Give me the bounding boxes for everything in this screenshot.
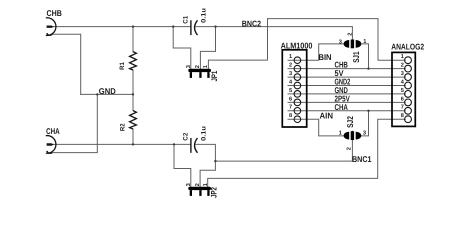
junction JP2 pin3 branch on CHA wire	[173, 143, 175, 145]
svg-text:2: 2	[195, 183, 201, 186]
svg-text:4: 4	[289, 79, 293, 85]
junction R1 top on CHB wire	[132, 25, 134, 27]
wire C1 right plate to SJ1 pin 2	[196, 27, 352, 40]
junction SJ1 pin1 on CHB rail	[367, 67, 369, 69]
svg-text:5: 5	[401, 88, 404, 94]
wire GND rail mid	[288, 93, 405, 95]
wire CHB bnc pin to C1 left plate	[51, 26, 190, 28]
svg-text:7: 7	[401, 105, 404, 111]
svg-text:2: 2	[348, 33, 354, 36]
svg-text:R1: R1	[119, 62, 126, 70]
svg-text:JP1: JP1	[210, 70, 219, 81]
svg-text:CHA: CHA	[335, 102, 348, 112]
connector CHA (BNC)	[46, 136, 56, 154]
connector ALM1000	[281, 41, 313, 128]
solder jumper SJ1	[339, 33, 367, 63]
svg-text:0.1u: 0.1u	[201, 126, 208, 141]
svg-text:1: 1	[289, 54, 292, 60]
junction SJ2 pin3 on CHA rail	[367, 110, 369, 112]
connector ANALOG2	[391, 41, 424, 126]
svg-text:C1: C1	[183, 15, 190, 23]
svg-text:CHB: CHB	[47, 8, 62, 18]
wire 2P5V rail	[288, 101, 405, 103]
wire CHA bnc pin to C2 left plate	[51, 143, 190, 145]
svg-text:SJ1: SJ1	[351, 51, 361, 63]
junction JP1 pin2 branch on C1 output wire	[214, 25, 216, 27]
wire R2 bottom branch	[132, 129, 134, 144]
svg-text:BIN: BIN	[319, 52, 332, 62]
svg-text:BNC1: BNC1	[352, 154, 372, 164]
capacitor C1	[191, 20, 198, 35]
svg-text:7: 7	[289, 105, 292, 111]
svg-text:1: 1	[401, 54, 404, 60]
wire R1 top branch	[132, 27, 134, 52]
svg-text:CHA: CHA	[46, 126, 60, 136]
svg-text:5: 5	[289, 88, 292, 94]
wire GND2 rail	[288, 85, 405, 87]
wire JP1 pin 2 feed (AC via C1)	[200, 27, 215, 69]
wire ALM pin1 BIN to SJ1 pin 3	[288, 44, 344, 60]
svg-text:6: 6	[289, 96, 292, 102]
wire CHB rail ALM pin2 to ANALOG2 pin2	[288, 68, 405, 70]
svg-text:6: 6	[401, 96, 404, 102]
junction R2 bottom on CHA wire	[132, 143, 134, 145]
wire SJ1 pin 1 to CHB rail	[361, 44, 369, 69]
wire JP1 pin 1 to BNC2 / ANALOG2 pin 1	[208, 19, 405, 69]
junction SJ2 pin2 wire on C2 output drop	[214, 160, 216, 162]
connector CHB (BNC)	[46, 18, 56, 36]
wire C2 right plate to JP2 pin 2 feed	[196, 144, 215, 186]
svg-text:3: 3	[339, 39, 342, 45]
resistor R2	[130, 111, 137, 129]
wire R1 bottom to GND rail	[132, 70, 134, 94]
junction CHA shield on GND rail	[96, 93, 98, 95]
solder jumper SJ2	[339, 116, 366, 150]
wire CHB shield to GND rail	[52, 34, 80, 94]
junction R1/R2 on GND rail	[132, 93, 134, 95]
jumper JP2	[186, 183, 219, 198]
svg-text:2: 2	[346, 147, 352, 150]
wire SJ2 pin 3 to CHA rail	[361, 111, 369, 136]
svg-text:3: 3	[186, 65, 192, 68]
svg-text:BNC2: BNC2	[242, 18, 262, 28]
wire JP2 pin 3 feed (DC)	[174, 144, 191, 186]
wire CHA rail ALM pin7 to ANALOG2 pin7	[288, 110, 405, 112]
jumper JP1	[186, 65, 219, 81]
svg-text:3: 3	[289, 71, 292, 77]
wire SJ2 pin 2 stub	[351, 131, 353, 140]
wire BNC1 net: SJ2 pin2, JP2 pin1, ANALOG2 pin8	[208, 119, 406, 187]
svg-text:1: 1	[363, 39, 366, 45]
svg-text:8: 8	[289, 113, 292, 119]
wire JP1 pin 3 feed (DC)	[173, 27, 191, 69]
svg-text:8: 8	[401, 113, 404, 119]
svg-text:R2: R2	[119, 123, 126, 131]
resistor R1	[130, 52, 137, 70]
wire GND rail	[81, 93, 133, 95]
wire ALM pin8 AIN to SJ2 pin 1	[288, 119, 344, 136]
wire CHA shield to GND rail	[52, 94, 97, 152]
svg-text:1: 1	[203, 65, 209, 68]
wire 5V rail	[288, 76, 405, 78]
svg-text:2: 2	[289, 63, 292, 69]
svg-text:ANALOG2: ANALOG2	[391, 41, 424, 51]
svg-text:C2: C2	[183, 132, 190, 140]
svg-text:3: 3	[363, 131, 366, 137]
svg-text:1: 1	[203, 183, 209, 186]
svg-text:2: 2	[195, 65, 201, 68]
wire R2 top branch	[132, 94, 134, 110]
svg-text:4: 4	[401, 79, 405, 85]
junction JP1 pin3 branch on CHB wire	[172, 25, 174, 27]
svg-text:JP2: JP2	[210, 187, 219, 198]
svg-text:1: 1	[339, 131, 342, 137]
svg-text:GND: GND	[99, 86, 116, 96]
svg-text:0.1u: 0.1u	[200, 8, 207, 23]
svg-text:3: 3	[401, 71, 404, 77]
svg-text:2: 2	[401, 63, 404, 69]
svg-text:AIN: AIN	[320, 111, 334, 121]
capacitor C2	[191, 138, 198, 153]
svg-text:SJ2: SJ2	[345, 116, 355, 128]
svg-text:ALM1000: ALM1000	[281, 41, 313, 51]
svg-text:3: 3	[186, 183, 192, 186]
